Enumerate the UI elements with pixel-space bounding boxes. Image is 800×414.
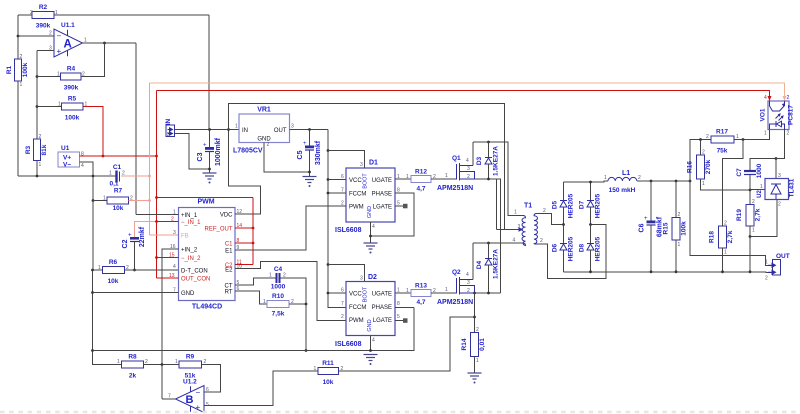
wire C2 bottom [134,242,136,270]
svg-text:OUT: OUT [776,253,790,260]
wire plus input rail [36,51,38,140]
wire D1 PHASE [371,193,415,236]
svg-text:B: B [186,394,194,406]
node D2 gnd on rail [369,349,372,352]
IC D1 ISL6608 [335,160,400,235]
svg-text:LGATE: LGATE [373,318,392,324]
svg-text:+: + [196,403,201,412]
node C1 pink junction [148,175,151,178]
wire VCC1 [328,179,346,181]
node R5 tap [36,105,39,108]
node VCC1 [327,178,330,181]
svg-text:10k: 10k [108,278,119,285]
svg-text:R2: R2 [39,4,48,11]
svg-text:2: 2 [49,31,52,37]
resistor R7 [93,188,133,213]
svg-text:R8: R8 [128,354,137,361]
node C1 pin [252,242,255,245]
arrow T1 center tap [519,227,524,231]
resistor R11 [314,360,344,386]
svg-text:1: 1 [55,10,58,16]
wire +IN_2 [162,249,179,399]
svg-text:390k: 390k [64,85,79,92]
svg-text:2: 2 [752,199,755,205]
svg-text:−_IN_2: −_IN_2 [181,256,201,262]
svg-text:BOOT: BOOT [363,286,369,302]
ground C5 [303,177,317,188]
svg-text:C5: C5 [297,150,304,159]
pink line to optocoupler [150,83,785,101]
resistor R5 [37,96,88,122]
svg-text:C7: C7 [736,168,743,177]
wire boot1 branch [328,151,365,169]
node C2 bottom on R6 line [133,269,136,272]
wire Vout to OUT+ [690,181,773,265]
svg-text:R14: R14 [461,338,468,350]
node VDC rail at IN [227,128,230,131]
svg-text:2: 2 [167,132,170,138]
resistor R2 [18,4,209,30]
node C4-R10 [305,303,308,306]
wire output down to TL494 +IN_1 [135,43,137,215]
svg-text:6: 6 [341,174,344,180]
red REF bus vertical [252,198,254,265]
resistor R8 [117,354,162,380]
connector IN [165,118,175,137]
svg-text:PHASE: PHASE [372,305,392,311]
resistor R17 [701,129,770,155]
svg-text:4,7: 4,7 [416,186,425,193]
svg-text:1: 1 [58,102,61,108]
svg-text:U1: U1 [61,145,70,152]
svg-text:1.5KE27A: 1.5KE27A [493,249,500,279]
IC D2 ISL6608 [335,274,400,348]
svg-text:D5: D5 [552,200,559,209]
wire -IN_2 red [157,257,179,259]
node ref C7 R19 [749,189,752,192]
node V+ red bus junction [155,155,158,158]
wire R10 right [289,303,306,305]
svg-text:3: 3 [49,46,52,52]
node left rail / op-amp minus [17,35,20,38]
node D1 gnd [369,235,372,238]
svg-text:1000: 1000 [271,284,286,291]
svg-text:GND: GND [367,319,373,331]
svg-text:+: + [644,216,648,222]
node C3 bottom [208,168,211,171]
node IN line C3 [208,128,211,131]
wire left rail [17,15,19,176]
SEC-POWER [437,141,606,384]
wire bottom common [18,175,116,177]
svg-text:R16: R16 [687,161,694,173]
svg-text:1: 1 [604,175,607,181]
svg-text:D2: D2 [368,274,377,281]
wire D1 UGATE to R12 [395,178,411,180]
resistor R15 [663,181,688,272]
svg-text:C2: C2 [122,239,129,248]
svg-text:1: 1 [20,82,23,88]
svg-text:+: + [57,47,62,56]
svg-text:REF_OUT: REF_OUT [204,227,232,233]
svg-text:V+: V+ [63,155,71,162]
svg-text:FB: FB [181,234,189,240]
wire secondary bottom route [537,225,607,279]
node boot2 branch [327,263,330,266]
resistor R16 [687,140,751,191]
wire RT to R10 [235,291,267,304]
IC TL494CD PWM box [169,199,242,311]
svg-text:1: 1 [57,72,60,78]
wire +IN_1 [136,214,179,216]
svg-text:R7: R7 [114,188,123,195]
wire REF_OUT red [235,227,253,229]
svg-text:10k: 10k [113,205,124,212]
svg-text:LGATE: LGATE [373,205,392,211]
svg-text:HER205: HER205 [568,236,575,261]
svg-text:1: 1 [445,287,448,293]
svg-text:2: 2 [540,238,543,244]
svg-text:8: 8 [81,152,84,158]
bottom output rail [564,271,773,274]
node R19 rail [749,270,752,273]
wire op-amp A output [83,42,137,44]
node REF_OUT [252,227,255,230]
svg-text:R11: R11 [322,360,334,367]
svg-text:R9: R9 [186,354,195,361]
wire U1.2 output [162,398,176,400]
svg-text:2: 2 [702,150,705,156]
wire D1 LGATE nc [395,205,403,207]
wire GND pin 7 [93,292,179,294]
svg-text:2: 2 [467,174,470,180]
transistor Q1 APM2518N [437,142,475,192]
svg-text:1: 1 [702,181,705,187]
svg-text:APM2518N: APM2518N [437,185,473,192]
node GND7 tap [91,291,94,294]
svg-text:2: 2 [145,359,148,365]
svg-text:1: 1 [764,131,767,137]
svg-text:2: 2 [267,142,270,148]
wire U1 V- [80,162,94,271]
svg-text:10k: 10k [323,379,334,386]
svg-text:3: 3 [360,162,363,168]
svg-text:4: 4 [513,238,516,244]
resistor R18 [709,221,735,272]
ground R14 [468,373,482,384]
svg-text:PWM: PWM [349,318,364,324]
svg-text:R19: R19 [736,209,743,221]
svg-text:7: 7 [341,188,344,194]
wire op-amp A minus input [18,35,54,37]
svg-text:2: 2 [30,10,33,16]
node D5-D6 mid [562,223,565,226]
svg-text:D-T_CON: D-T_CON [181,269,208,275]
svg-text:1: 1 [736,134,739,140]
svg-text:UGATE: UGATE [372,178,392,184]
svg-text:2,7k: 2,7k [727,230,734,243]
SEC-SECONDARY [552,170,773,273]
node -IN_2 [155,256,158,259]
svg-text:IN: IN [242,128,248,134]
wire R14 bottom [474,357,476,374]
+5 bus down to drivers [328,130,346,308]
svg-text:150 mkH: 150 mkH [609,187,636,194]
node D8 bottom [589,270,592,273]
wire OUT_CON red [157,277,179,279]
wire Q1 source to center tap [475,179,501,293]
common rail [93,308,415,351]
svg-text:1: 1 [765,260,768,266]
svg-text:HER205: HER205 [595,236,602,261]
red arrowhead at VO1 [768,96,772,101]
svg-text:APM2518N: APM2518N [437,299,473,306]
wire Vout to R17 node [690,140,701,182]
resistor R6 [93,259,179,285]
svg-text:UGATE: UGATE [372,292,392,298]
svg-text:PC817: PC817 [788,105,795,125]
svg-text:2: 2 [20,54,23,60]
svg-text:+: + [203,143,207,149]
svg-text:8: 8 [397,301,400,307]
op-amp U1.1 [54,22,83,57]
svg-text:2: 2 [341,314,344,320]
svg-text:1: 1 [269,273,272,279]
svg-text:D3: D3 [476,156,483,165]
wire R11 to R14 top [339,317,475,371]
svg-text:D8: D8 [579,243,586,252]
resistor R13 [406,283,436,307]
wire T1 center tap [497,229,522,231]
node C4 col on rail [305,349,308,352]
svg-text:330mkf: 330mkf [315,140,322,165]
svg-text:PHASE: PHASE [372,192,392,198]
optocoupler VO1 PC817 [760,95,795,137]
wire Q2 drain rail to T1 pin4 [473,242,523,244]
wire +12 rail to T1 center [229,104,505,230]
svg-text:HER205: HER205 [568,193,575,218]
SEC-PWM [93,104,415,400]
node Vout rail end [689,180,692,183]
wire op-amp A plus input [37,50,54,52]
wire Q1 drain rail [473,142,523,216]
svg-text:2: 2 [787,95,790,101]
IC U2 TL431 [750,159,796,208]
resistor R3 [25,134,48,168]
svg-text:3: 3 [467,166,470,172]
diode D5 HER205 [552,182,575,225]
node R4 tap [36,75,39,78]
ground C3 [203,173,217,184]
node VCC2 [327,292,330,295]
svg-text:3: 3 [173,230,176,236]
svg-text:3: 3 [291,124,294,130]
diode D7 HER205 [579,182,602,225]
svg-text:100k: 100k [22,62,29,77]
node source R14 tap [473,292,476,295]
connector OUT [765,253,790,282]
ground D2 [364,355,378,366]
wire VR1 GND [264,143,310,173]
svg-text:1: 1 [752,228,755,234]
wire IN pin2 to C3 bottom [175,134,210,170]
capacitor C4 [269,266,286,291]
svg-text:+IN_2: +IN_2 [181,248,198,254]
wire C4 right down [281,278,307,351]
svg-text:2: 2 [678,212,681,218]
svg-text:1: 1 [109,171,112,177]
wire VO1 emitter down [776,130,785,159]
svg-text:390k: 390k [36,23,51,30]
capacitor C5 [297,130,322,177]
wire IN pin1 to VR1 [175,129,240,131]
svg-text:2: 2 [724,221,727,227]
svg-text:VCC: VCC [349,178,362,184]
svg-text:U1.2: U1.2 [183,379,197,386]
node R18 bottom rail [721,270,724,273]
svg-text:A: A [64,39,72,51]
nc square D2 [403,318,408,323]
red line to optocoupler [157,91,770,102]
wire source to R14 [474,293,476,333]
svg-text:0,1: 0,1 [109,181,118,188]
svg-text:R4: R4 [67,66,76,73]
svg-text:R15: R15 [663,222,670,234]
node V- rail bottom [92,175,95,178]
svg-text:BOOT: BOOT [363,173,369,189]
svg-text:1: 1 [476,358,479,364]
svg-text:2: 2 [765,276,768,282]
node R14 R11 tap [473,316,476,319]
wire D2 UGATE to R13 [395,292,411,294]
svg-text:3: 3 [778,173,781,179]
svg-text:FCCM: FCCM [349,305,366,311]
svg-text:U1.1: U1.1 [61,22,75,29]
svg-text:4: 4 [372,224,375,230]
svg-text:2k: 2k [129,373,137,380]
svg-text:R10: R10 [272,293,284,300]
node C6 bottom [650,270,653,273]
U1 power box [58,145,84,169]
node R3 bottom [36,175,39,178]
node R8 R9 junction [161,363,164,366]
node D3 top [487,141,490,144]
wire VCC2 [328,292,346,294]
svg-text:L7805CV: L7805CV [233,148,263,155]
svg-text:C4: C4 [274,266,283,273]
svg-text:1: 1 [406,288,409,294]
svg-text:2,7k: 2,7k [755,208,762,221]
wire D2 GND [370,336,372,351]
svg-text:TL431: TL431 [789,178,796,197]
node R6 left on V- rail [91,269,94,272]
resistor R10 [263,293,294,318]
svg-text:81k: 81k [41,144,48,155]
svg-text:R5: R5 [68,96,77,103]
node op-amp A output [103,42,106,45]
svg-text:75k: 75k [717,148,728,155]
svg-text:+: + [128,233,132,239]
resistor R19 [736,190,762,272]
svg-text:GND: GND [181,291,195,297]
svg-text:OUT: OUT [274,128,287,134]
node D4 bottom [487,292,490,295]
svg-text:D7: D7 [579,200,586,209]
capacitor C7 [736,159,776,191]
svg-text:VDC: VDC [220,213,233,219]
svg-text:1000mkf: 1000mkf [215,137,222,166]
svg-text:270k: 270k [705,159,712,174]
node common rail tap [91,349,94,352]
wire R3 bottom [36,161,38,177]
node C6 top [650,180,653,183]
node V+ R5 junction [102,155,105,158]
resistor R12 [406,169,436,193]
node R15 top [675,180,678,183]
wire Vout top rail [637,180,690,182]
svg-text:0,01: 0,01 [479,338,486,351]
svg-text:V−: V− [63,162,71,169]
svg-text:2: 2 [706,134,709,140]
SEC-REG [165,104,505,308]
nc square D1 [403,204,408,209]
node D7-D8 mid [589,223,592,226]
svg-text:4: 4 [764,95,767,101]
wire D2 LGATE nc [395,320,403,322]
transformer T1 primary [513,203,533,246]
node C5 bottom gnd [308,171,311,174]
wire VDC to +12 [229,104,261,215]
wire R2 to IN node [208,15,210,130]
svg-text:1: 1 [445,173,448,179]
diode D4 1.5KE27A [476,243,500,293]
svg-text:VCC: VCC [349,292,362,298]
svg-text:R6: R6 [109,259,118,266]
wire R7 right pink [129,200,150,202]
wire pink to FB [150,234,179,236]
wire bridge top rail [564,181,609,182]
svg-text:1: 1 [175,359,178,365]
svg-text:R3: R3 [25,145,32,154]
svg-text:C3: C3 [197,152,204,161]
wire -IN_1 red [157,221,179,223]
node -IN_1 [155,220,158,223]
svg-text:4,7: 4,7 [416,299,425,306]
svg-text:+: + [303,141,307,147]
wire TL431 anode [750,200,777,237]
wire boot2 branch [328,265,365,282]
svg-text:E2: E2 [225,268,233,274]
diode D3 1.5KE27A [476,142,500,179]
wire center tap [496,179,498,230]
svg-text:R17: R17 [716,129,728,136]
svg-text:3: 3 [360,276,363,282]
diode D6 HER205 [552,225,575,272]
svg-text:IN: IN [165,118,172,125]
svg-text:100k: 100k [681,221,688,236]
SEC-RIGHT [687,95,796,282]
resistor R9 [162,354,221,393]
svg-text:R13: R13 [415,283,427,290]
svg-text:OUT_CON: OUT_CON [181,277,210,283]
SEC-BOTTOM [0,317,800,413]
svg-text:−: − [57,32,62,41]
node R16 top [699,138,702,141]
node D4 top [487,242,490,245]
svg-text:2: 2 [39,134,42,140]
svg-text:C6: C6 [639,223,646,232]
svg-text:PWM: PWM [197,199,214,206]
